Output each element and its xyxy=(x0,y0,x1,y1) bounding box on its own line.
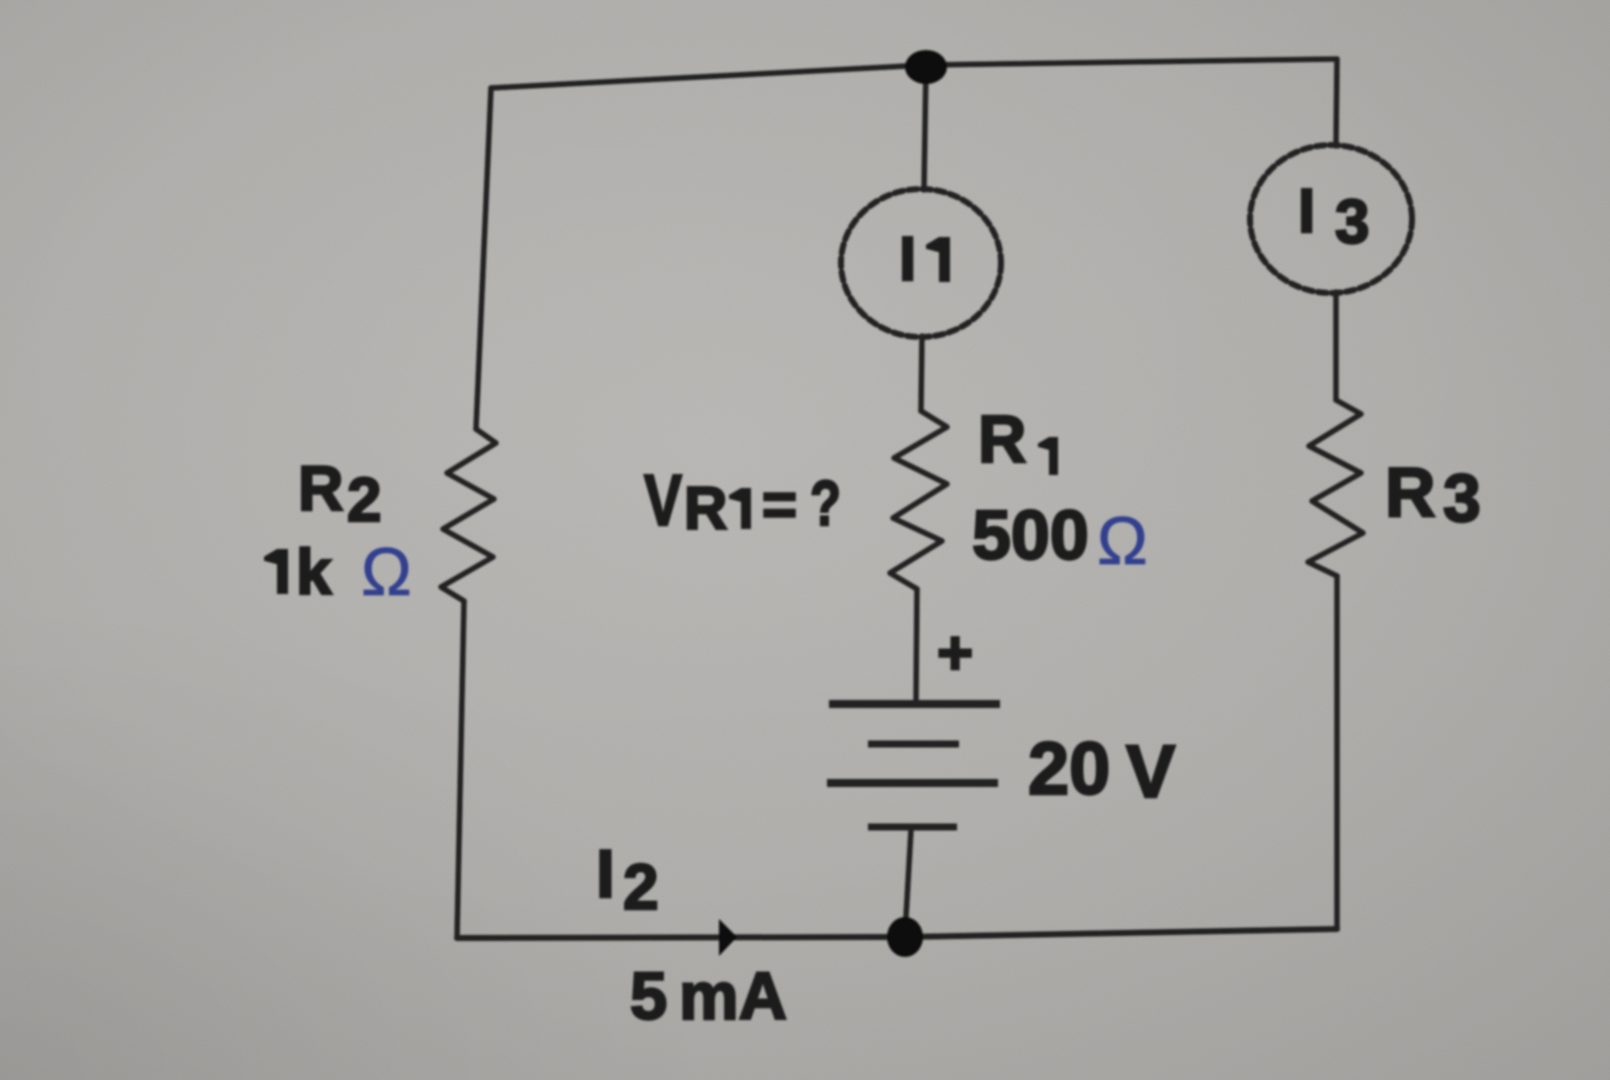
label 1 kΩ (value of R2) xyxy=(264,534,412,610)
svg-text:20: 20 xyxy=(1028,727,1110,810)
wire right side upper xyxy=(1336,59,1337,146)
battery plate 2 short xyxy=(868,741,959,748)
label R3 xyxy=(1385,453,1481,536)
svg-text:5: 5 xyxy=(630,959,667,1034)
svg-text:R: R xyxy=(1385,453,1436,531)
label VR1 = ? xyxy=(644,461,841,542)
battery plate 4 short xyxy=(868,824,957,831)
svg-text:Ω: Ω xyxy=(361,534,412,610)
svg-text:R: R xyxy=(684,475,727,542)
ammeter I1 circle xyxy=(841,189,1001,337)
svg-text:2: 2 xyxy=(623,851,659,923)
label 20 V (battery value) xyxy=(1028,727,1175,813)
wire I3 to R3 xyxy=(1333,292,1339,400)
wire R1 to battery xyxy=(916,589,917,700)
svg-text:Ω: Ω xyxy=(1097,503,1148,579)
svg-text:=: = xyxy=(762,471,797,538)
resistor R1 xyxy=(890,411,947,589)
label 500 Ω (value of R1) xyxy=(972,496,1148,579)
svg-text:500: 500 xyxy=(972,496,1089,574)
wire bottom right xyxy=(905,929,1337,937)
svg-text:3: 3 xyxy=(1443,460,1481,536)
resistor R2 xyxy=(441,429,496,601)
svg-text:2: 2 xyxy=(347,466,381,535)
wire left side upper xyxy=(476,88,491,429)
battery plate 3 long xyxy=(827,779,998,787)
wire top node to I1 xyxy=(924,65,926,190)
label I1 xyxy=(899,225,950,294)
label I2 xyxy=(596,836,659,923)
wire top-left to top node xyxy=(491,65,926,88)
svg-text:?: ? xyxy=(810,467,841,539)
svg-text:V: V xyxy=(644,461,682,541)
wire bottom left xyxy=(457,937,905,938)
wire left side lower xyxy=(457,601,464,938)
battery plate 1 long xyxy=(829,700,1000,708)
svg-text:I: I xyxy=(1298,177,1315,246)
svg-text:R: R xyxy=(298,454,344,524)
ammeter I3 circle xyxy=(1250,145,1412,293)
current arrow I2 xyxy=(719,919,737,956)
bottom node junction dot xyxy=(887,917,923,957)
resistor R3 xyxy=(1308,400,1363,576)
label 5 mA (value of I2) xyxy=(630,959,787,1034)
svg-text:+: + xyxy=(937,619,973,688)
svg-text:R: R xyxy=(978,402,1026,477)
svg-text:k: k xyxy=(296,536,332,608)
wire I1 to R1 xyxy=(921,336,922,411)
label R1 xyxy=(978,402,1058,477)
label R2 xyxy=(298,454,381,535)
wire top node to top-right corner xyxy=(926,59,1337,65)
label I3 xyxy=(1298,177,1369,257)
svg-text:I: I xyxy=(596,836,615,912)
svg-text:3: 3 xyxy=(1335,188,1369,257)
svg-text:mA: mA xyxy=(679,959,787,1034)
wire right side lower xyxy=(1334,576,1340,929)
top node junction dot xyxy=(905,50,947,84)
svg-text:V: V xyxy=(1126,730,1175,813)
svg-text:I: I xyxy=(899,225,916,294)
wire battery to bottom node xyxy=(905,830,911,934)
